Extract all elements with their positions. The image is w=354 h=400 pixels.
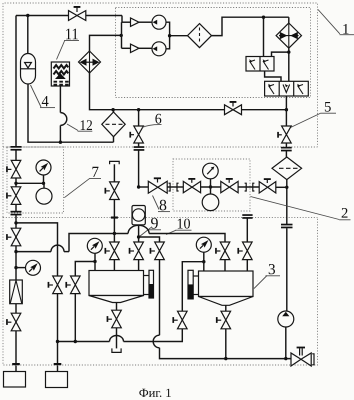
heat exchanger diamond with double arrow	[79, 51, 101, 73]
valve left lower	[6, 187, 21, 205]
node junction header	[59, 141, 62, 144]
node junction pump feed	[120, 34, 123, 37]
wire tank2 drain to manifold	[225, 329, 227, 359]
wire diamond down to mid rail	[90, 73, 114, 110]
node junction chain left	[137, 185, 140, 188]
valve sampling branch	[105, 182, 120, 200]
tank 1	[89, 271, 144, 303]
label 8	[153, 196, 171, 212]
wire sampling branch to rail	[113, 200, 115, 234]
wire diamond to pump feed	[90, 35, 122, 51]
capped sampling branch above valve A	[110, 161, 120, 182]
valve left upper	[6, 160, 21, 178]
label 11	[57, 29, 80, 60]
pressure gauge tank2	[196, 237, 211, 262]
pressure gauge left lower	[16, 260, 41, 275]
node junction left branch2	[14, 250, 17, 253]
wire pump branch	[122, 22, 131, 48]
wire accumulator drop	[27, 16, 29, 54]
node junction tank2 top	[202, 260, 205, 263]
valve 5	[277, 110, 291, 143]
wire shuttle outlet	[272, 48, 289, 81]
wire drain collector with hump	[58, 329, 183, 342]
filter diamond discharge	[188, 24, 212, 48]
node junction below 9	[137, 235, 140, 238]
wire left feed to bridge	[16, 223, 58, 276]
node junction mid rail valve6	[137, 108, 140, 111]
valve drain tank2 center	[216, 311, 231, 329]
check valve lower	[131, 44, 140, 52]
valve bypass C	[150, 242, 165, 260]
wire tank2 left drain riser	[182, 262, 204, 311]
wire valve C branch	[139, 237, 160, 242]
pump motor upper	[152, 15, 166, 29]
wire block2 outlet to mid rail	[285, 96, 287, 110]
level gauge tank2	[188, 270, 199, 299]
wire mid rail	[113, 109, 224, 111]
valve drain L2	[65, 276, 80, 294]
enclosure bottom section boundary	[3, 216, 318, 218]
node junction left tee a	[14, 182, 17, 185]
node junction manifold pump	[284, 357, 287, 360]
level gauge tank1	[144, 270, 154, 298]
wire drain valve L2 riser	[75, 262, 95, 277]
pressure gauge left upper	[36, 160, 51, 183]
valve left bottom	[6, 313, 21, 331]
valve 8	[148, 177, 167, 193]
wire valve A stub	[113, 234, 115, 243]
valve 6	[129, 126, 143, 143]
label 4	[31, 85, 56, 108]
caption	[139, 389, 170, 397]
valve tank2 feed E	[237, 242, 252, 260]
valve chain B	[221, 178, 238, 193]
wire 11 drop with compensator 12	[60, 86, 66, 142]
directional valve block lower	[265, 81, 309, 96]
valve tank1 feed A	[105, 242, 120, 260]
valve chain A	[183, 178, 200, 193]
directional valve block upper	[246, 57, 274, 72]
tank 2	[199, 271, 254, 305]
wire left main riser	[15, 16, 17, 147]
enclosure box 2	[173, 159, 250, 211]
label 10	[166, 219, 192, 235]
wire sampling chain	[139, 186, 287, 188]
label 9	[140, 218, 162, 237]
valve drain tank1	[107, 310, 122, 328]
node junction mid rail right	[285, 108, 288, 111]
pipe coupling chain right pair	[245, 183, 255, 191]
pressure gauge chain	[203, 163, 219, 187]
metering pump 9	[132, 206, 145, 225]
label 12	[67, 120, 92, 131]
check valve upper	[131, 18, 140, 26]
reservoir tank A	[4, 372, 26, 388]
wire tank2 gauge entry	[203, 262, 205, 271]
wire tank1 gauge entry	[94, 262, 96, 271]
wire check valves to pumps	[139, 22, 152, 48]
label 6	[142, 114, 162, 128]
wire component 9 drop	[138, 225, 140, 242]
drain pan symbol	[112, 348, 121, 352]
pump motor lower	[152, 42, 166, 56]
wire pump outlet bus	[166, 22, 188, 49]
node junction shuttle	[287, 50, 290, 53]
shuttle valve diamond	[276, 17, 301, 48]
pipe union right column	[281, 224, 293, 229]
node junction right column chain	[285, 186, 288, 189]
wire discharge to top rail	[212, 17, 289, 35]
wire bypass C drop with hump and corner	[153, 260, 290, 359]
wire L2 to collector	[74, 294, 76, 342]
pipe union below valve 5	[281, 143, 292, 157]
filter diamond right column	[272, 157, 302, 180]
wire rail to valve block 1	[263, 17, 265, 56]
node junction top rail	[262, 16, 265, 19]
valve bottom outlet	[291, 347, 314, 366]
wire block1 to block2	[265, 71, 281, 81]
pipe union left top	[11, 146, 22, 160]
wire accumulator to bottom header	[28, 84, 114, 142]
label 7	[64, 167, 101, 198]
node junction left tee b	[42, 182, 45, 185]
node junction mid rail filter	[111, 108, 114, 111]
strainer left column	[10, 280, 23, 304]
damper vessel left	[36, 183, 52, 204]
node junction pump bus	[168, 34, 171, 37]
wire right column	[286, 180, 288, 311]
wire valve 6 branch	[138, 110, 140, 126]
node junction chain gauge	[209, 185, 212, 188]
valve tank1 feed B	[129, 242, 144, 260]
enclosure box 7	[7, 147, 64, 213]
wire tank1 feed stubs	[114, 260, 138, 271]
boundary tick left	[12, 363, 20, 365]
label 2	[251, 197, 351, 220]
node junction left branch1	[14, 221, 17, 224]
filter 12 main diamond	[102, 110, 125, 143]
wire tank2 feed stubs	[225, 260, 247, 271]
valve drain L1	[48, 276, 63, 294]
label 1	[318, 10, 354, 35]
boundary tick mid	[54, 363, 62, 365]
pipe union below valve 6	[134, 143, 145, 187]
wire distribution line with hump	[69, 225, 225, 251]
valve tank2 feed D	[215, 242, 230, 260]
wire valve E riser with coupling	[242, 214, 252, 242]
node junction collector L2	[74, 340, 77, 343]
node junction collector L1	[56, 340, 59, 343]
valve chain C	[259, 178, 276, 193]
wire left to tank A	[15, 331, 17, 372]
valve mid rail shut-off	[225, 101, 242, 115]
pipe coupling chain left pair	[169, 183, 179, 191]
node junction manifold tank2	[224, 357, 227, 360]
node junction tank1 top	[93, 260, 96, 263]
wire L1 to collector and tank B	[57, 294, 59, 372]
valve top shut-off	[69, 6, 86, 21]
label 5	[291, 102, 337, 128]
node junction left branch3	[14, 266, 17, 269]
accumulator 4	[21, 54, 36, 85]
wire bypass line bridging L1	[16, 245, 69, 251]
valve left mid shut-off	[6, 228, 21, 246]
pressure gauge tank1	[87, 238, 102, 261]
boundary tick sampling branch	[111, 217, 118, 219]
label 3	[254, 264, 280, 289]
damper vessel chain	[202, 187, 219, 211]
wire left gauge tee	[16, 178, 44, 187]
wire tank1 drain to pan	[116, 328, 118, 349]
enclosure pump-unit dashed box	[116, 8, 311, 98]
air preparation unit 11	[51, 62, 69, 86]
valve drain tank2 left	[172, 311, 187, 329]
pipe union left mid	[11, 204, 22, 313]
pump bottom right	[278, 311, 294, 359]
drain tank2 center	[225, 305, 227, 311]
node junction top	[26, 14, 29, 17]
drain tank1	[116, 303, 118, 311]
reservoir tank B	[46, 372, 68, 388]
node junction valve A top	[113, 232, 116, 235]
wire top supply line	[16, 16, 122, 23]
